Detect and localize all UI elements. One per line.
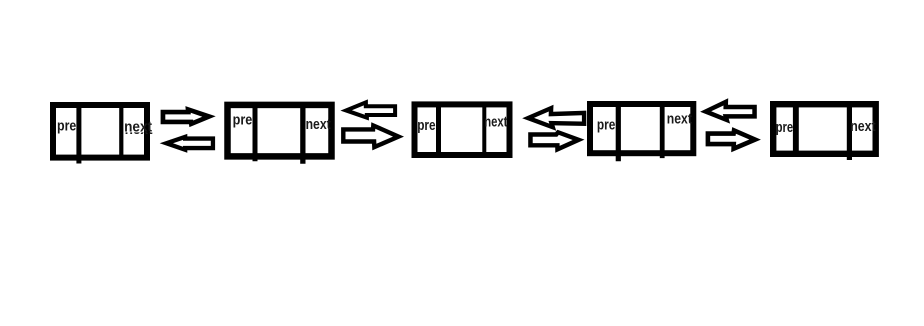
svg-text:next: next [850,118,875,135]
arrow pair 4 left (top) [700,98,757,123]
svg-text:pre: pre [233,112,253,129]
arrow pair 3 right (bottom) [528,130,584,153]
node 1 next label ghost dashes [125,121,153,138]
arrow pair 4 right (bottom) [706,127,761,152]
node 4 box [590,104,693,161]
svg-text:pre: pre [417,117,435,134]
svg-text:next: next [667,111,692,128]
arrow pair 1 left (bottom) [160,134,215,153]
node 2 box [228,105,332,164]
arrow pair 3 left (top) [522,105,586,131]
arrow pair 1 right (top) [161,106,216,127]
node 1 box [53,105,147,164]
svg-text:pre: pre [597,117,616,134]
arrow pair 2 right (bottom) [341,122,404,150]
node 3 box [415,104,510,155]
svg-text:pre: pre [776,119,794,136]
svg-text:next: next [306,116,331,133]
arrow pair 2 left (top) [340,99,397,120]
svg-text:pre: pre [57,118,76,135]
svg-text:next: next [484,113,507,130]
node 5 box [773,104,876,160]
